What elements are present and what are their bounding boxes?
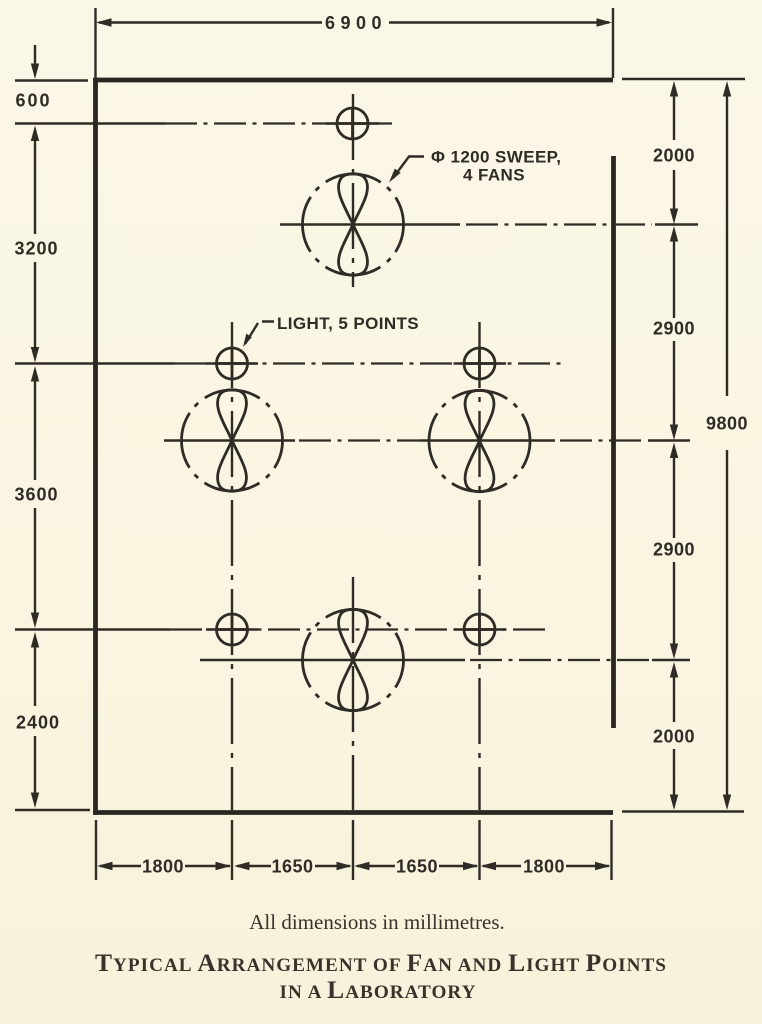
light 2 mid-left <box>217 348 248 379</box>
svg-text:3600: 3600 <box>14 485 58 505</box>
svg-text:All dimensions in millimetres.: All dimensions in millimetres. <box>249 910 505 934</box>
BOTTOM DIMENSION CHAIN (1800/1650/1650/1800) <box>96 820 612 880</box>
dim 3600 <box>31 366 39 382</box>
dim 2000 lower <box>670 662 678 678</box>
dim 2900 lower <box>670 443 678 459</box>
light 1 top <box>337 108 368 139</box>
wall left <box>93 78 98 815</box>
junction tick row2 <box>648 439 690 441</box>
centerline fan row 2 <box>164 439 295 441</box>
fan 2 middle-left <box>182 390 283 491</box>
centerline column A (x=232) <box>231 322 233 810</box>
dim 1800 right <box>481 862 497 870</box>
OVERALL DIMENSION 9800 <box>706 81 748 810</box>
svg-text:2000: 2000 <box>653 727 695 747</box>
fan 3 middle-right <box>429 390 530 491</box>
svg-text:2000: 2000 <box>653 146 695 166</box>
dim 2400 <box>31 632 39 648</box>
centerline light row 2 <box>15 362 175 364</box>
extension ticks <box>15 79 88 81</box>
svg-text:2400: 2400 <box>16 713 60 733</box>
wall right (partial) <box>611 156 616 728</box>
svg-text:TYPICAL ARRANGEMENT OF FAN AND: TYPICAL ARRANGEMENT OF FAN AND LIGHT POI… <box>95 948 667 977</box>
centerline fan row 3 <box>200 659 465 661</box>
centerline fan row 1 <box>280 223 460 225</box>
svg-text:1650: 1650 <box>271 857 313 877</box>
svg-text:IN A LABORATORY: IN A LABORATORY <box>280 975 477 1004</box>
LABEL light points with leader <box>243 314 419 347</box>
extension lines right <box>622 78 745 80</box>
dim 1650 left <box>234 862 250 870</box>
svg-text:3200: 3200 <box>14 239 58 259</box>
centerline column C (x=479.5) <box>478 322 480 810</box>
svg-text:9800: 9800 <box>706 414 748 434</box>
svg-text:1800: 1800 <box>523 857 565 877</box>
LEFT DIMENSION CHAIN <box>14 45 90 810</box>
light 3 mid-right <box>464 348 495 379</box>
LABEL fan sweep with leader <box>389 148 561 185</box>
light crosshair solid segments <box>206 124 506 630</box>
fan 4 bottom <box>303 609 404 710</box>
svg-text:2900: 2900 <box>653 319 695 339</box>
svg-text:1650: 1650 <box>396 857 438 877</box>
extension lines <box>96 820 612 880</box>
junction tick row3 <box>652 659 690 661</box>
centerline column B (x=353) <box>352 94 354 287</box>
dim 1650 right <box>354 862 370 870</box>
svg-text:2900: 2900 <box>653 540 695 560</box>
svg-text:Φ 1200 SWEEP,: Φ 1200 SWEEP, <box>431 148 561 167</box>
RIGHT DIMENSION CHAIN (2000/2900/2900/2000) <box>622 79 745 812</box>
junction tick row1 <box>655 223 698 225</box>
svg-text:600: 600 <box>15 91 51 111</box>
wall top <box>93 78 613 83</box>
light 4 bottom-left <box>217 614 248 645</box>
fan 1 top <box>303 174 404 275</box>
svg-text:4 FANS: 4 FANS <box>463 166 525 185</box>
svg-text:6900: 6900 <box>325 13 387 33</box>
dim 3200 <box>31 126 39 142</box>
dim 1800 left <box>97 862 113 870</box>
TOP DIMENSION 6900 <box>96 8 614 78</box>
svg-text:1800: 1800 <box>142 857 184 877</box>
svg-text:LIGHT, 5 POINTS: LIGHT, 5 POINTS <box>277 314 419 333</box>
centerline light row 1 <box>15 122 165 124</box>
dim 2000 upper <box>670 81 678 97</box>
dim 600 <box>34 45 36 66</box>
light 5 bottom-right <box>464 614 495 645</box>
centerline light row 3 <box>15 628 170 630</box>
wall bottom <box>93 810 613 815</box>
dim 2900 upper <box>670 226 678 242</box>
